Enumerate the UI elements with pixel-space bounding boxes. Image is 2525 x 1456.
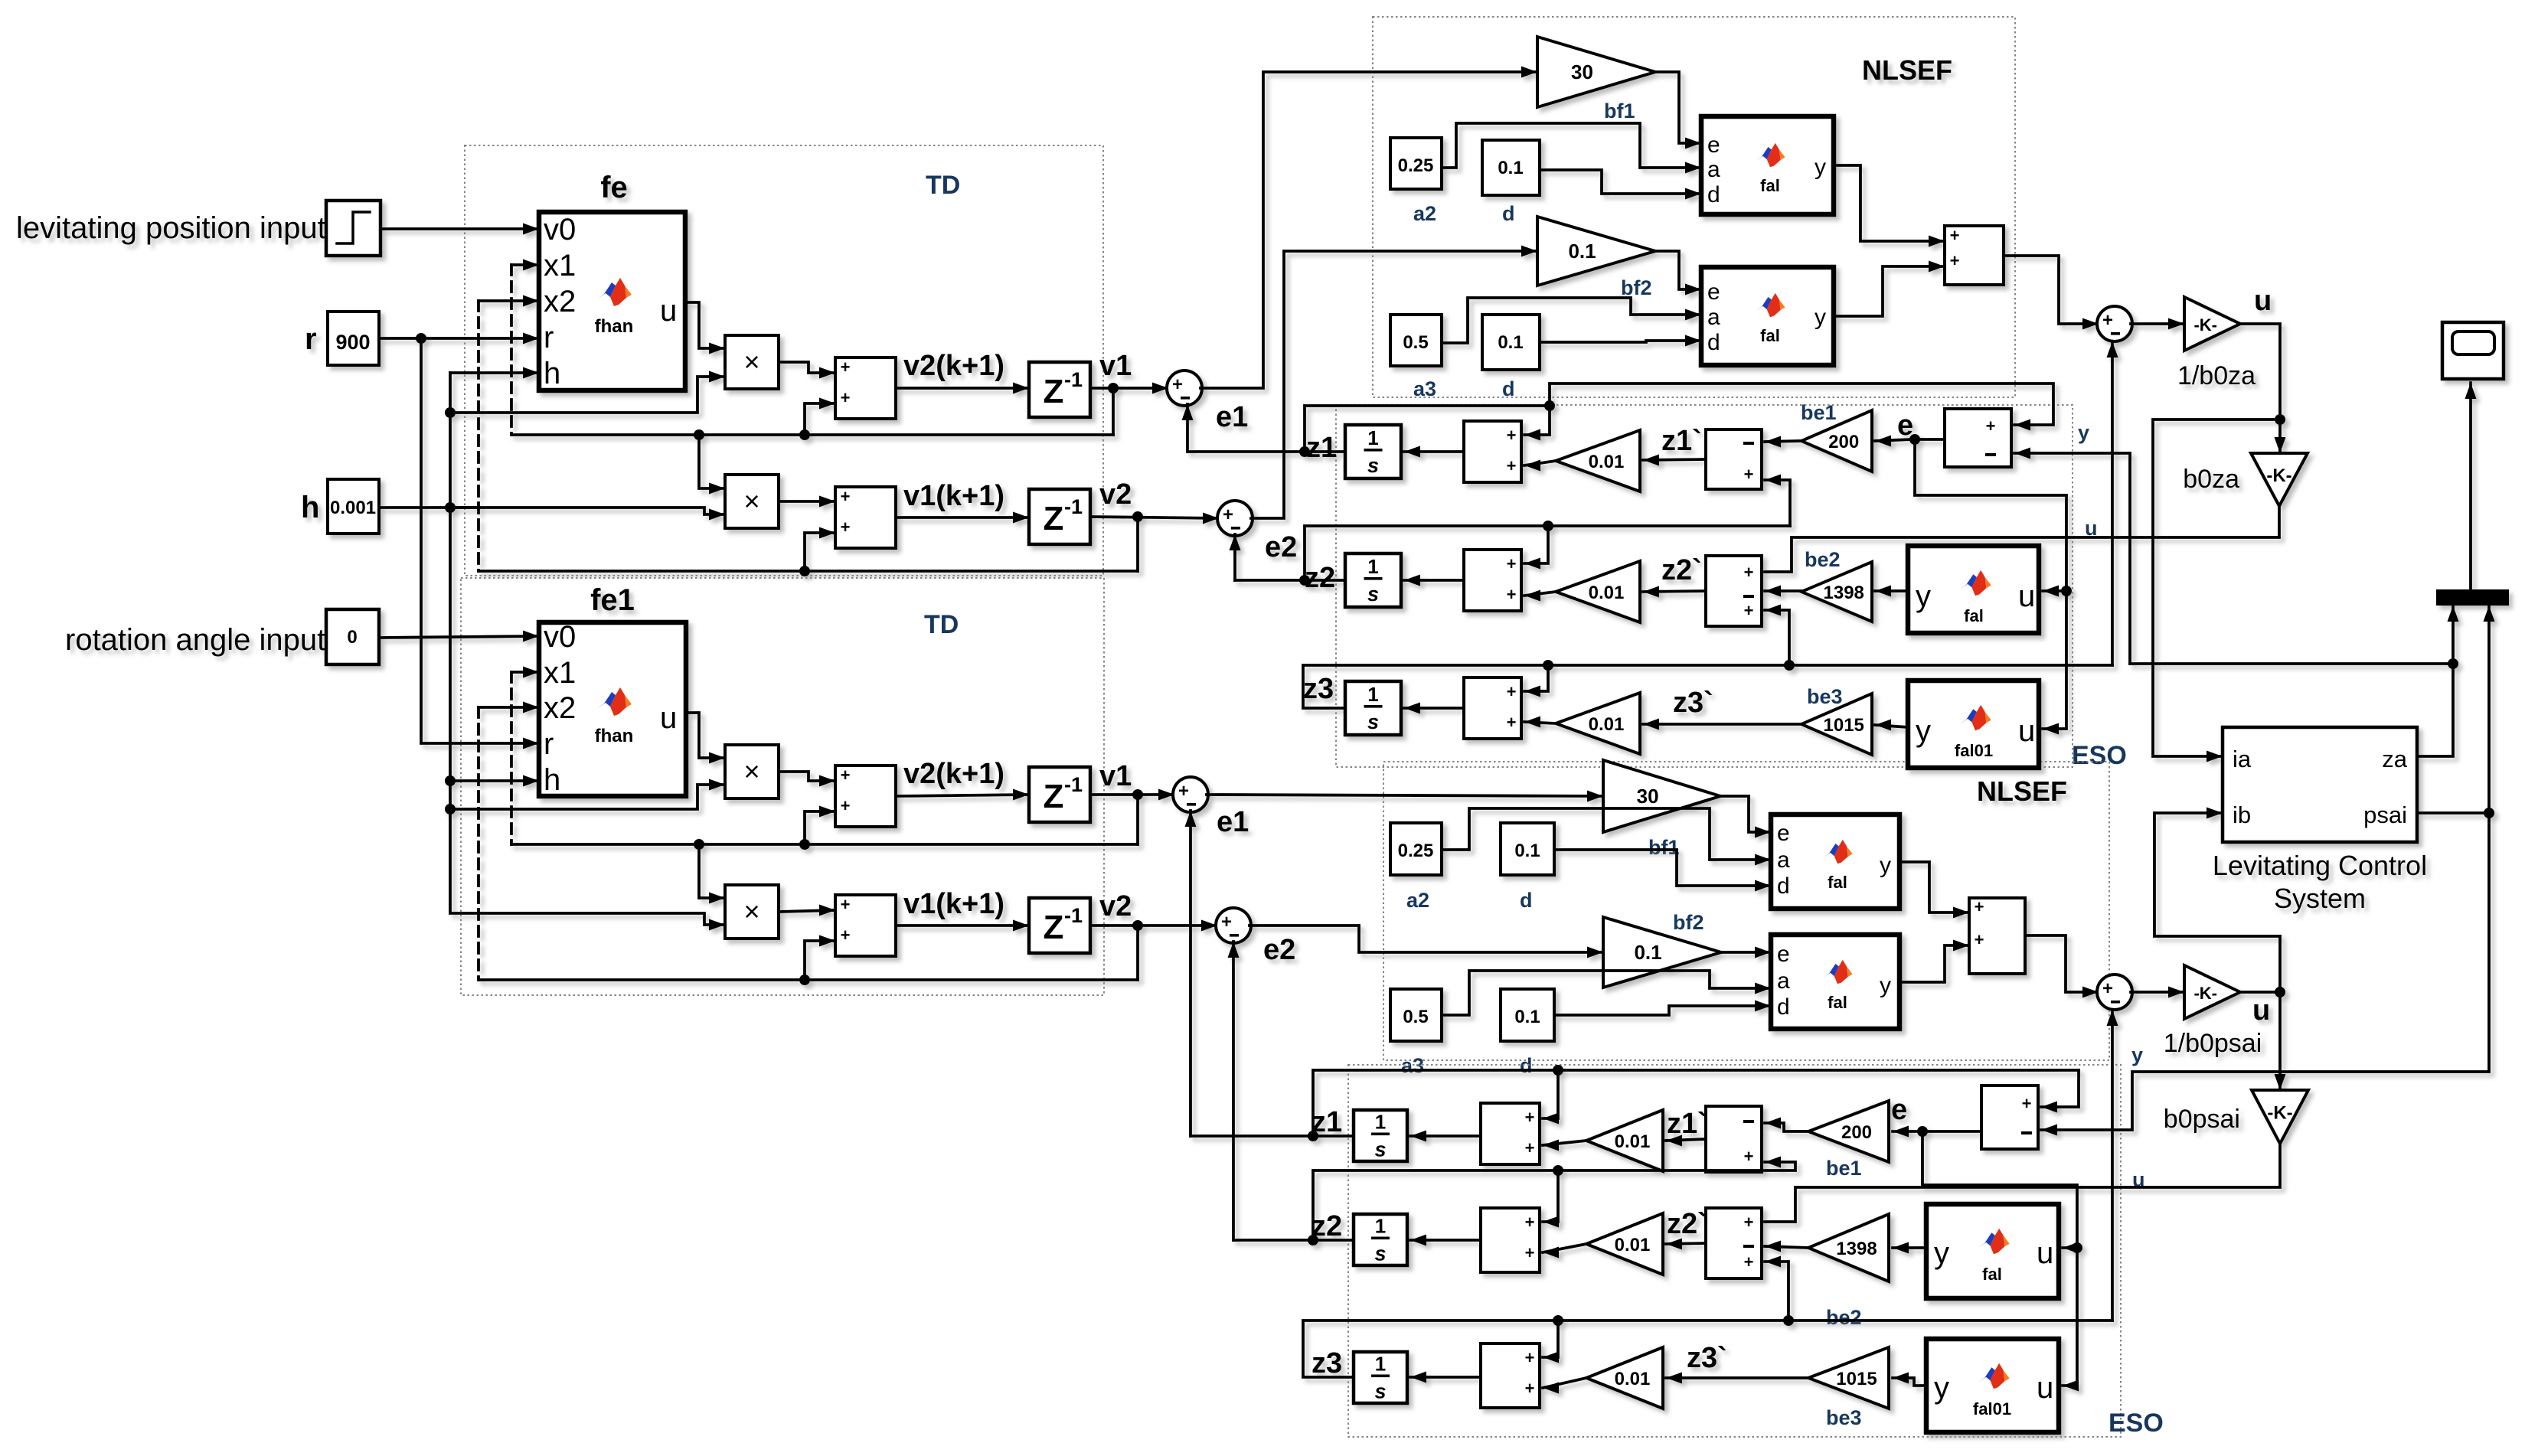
svg-text:-K-: -K- — [2266, 465, 2291, 486]
svg-text:levitating position input: levitating position input — [16, 211, 326, 245]
svg-text:200: 200 — [1828, 432, 1859, 452]
svg-text:r: r — [544, 321, 554, 354]
svg-text:0.1: 0.1 — [1634, 941, 1661, 964]
svg-text:v2(k+1): v2(k+1) — [903, 350, 1004, 382]
svg-text:u: u — [2018, 579, 2035, 613]
svg-text:+: + — [1223, 504, 1233, 525]
svg-text:z3`: z3` — [1687, 1342, 1727, 1374]
svg-text:u: u — [2037, 1371, 2053, 1405]
svg-text:Levitating Control: Levitating Control — [2213, 850, 2427, 881]
svg-text:fal: fal — [1760, 326, 1780, 345]
svg-text:e: e — [1707, 279, 1720, 305]
svg-text:+: + — [1525, 1243, 1535, 1262]
svg-text:u: u — [2254, 285, 2272, 317]
svg-text:r: r — [544, 727, 554, 761]
svg-text:+: + — [1525, 1348, 1535, 1367]
svg-text:0.5: 0.5 — [1403, 1007, 1428, 1027]
svg-text:Z: Z — [1044, 373, 1064, 410]
svg-text:e: e — [1707, 132, 1720, 158]
svg-text:30: 30 — [1637, 785, 1659, 808]
svg-text:200: 200 — [1841, 1122, 1872, 1143]
svg-text:a: a — [1777, 968, 1790, 994]
svg-text:u: u — [2252, 994, 2270, 1027]
svg-text:u: u — [660, 701, 677, 735]
svg-text:bf2: bf2 — [1673, 911, 1704, 934]
svg-text:1: 1 — [1375, 1111, 1386, 1134]
svg-text:1/b0psai: 1/b0psai — [2164, 1029, 2262, 1058]
svg-text:u: u — [660, 294, 677, 328]
svg-text:+: + — [1744, 1213, 1754, 1232]
svg-text:+: + — [841, 895, 851, 914]
svg-text:1015: 1015 — [1836, 1369, 1877, 1389]
svg-text:a: a — [1707, 305, 1720, 330]
svg-text:1398: 1398 — [1824, 583, 1864, 603]
svg-text:+: + — [1986, 416, 1996, 436]
svg-text:×: × — [743, 485, 759, 517]
svg-text:y: y — [1880, 973, 1891, 998]
svg-text:z3`: z3` — [1673, 687, 1713, 719]
svg-text:+: + — [1507, 713, 1517, 732]
svg-text:s: s — [1367, 710, 1379, 733]
svg-text:+: + — [841, 357, 851, 377]
svg-text:s: s — [1367, 583, 1379, 606]
svg-text:Z: Z — [1044, 500, 1064, 537]
svg-text:ia: ia — [2233, 746, 2252, 772]
svg-text:-1: -1 — [1064, 495, 1083, 518]
svg-text:a: a — [1777, 847, 1790, 873]
svg-text:v0: v0 — [544, 620, 576, 654]
svg-text:x1: x1 — [544, 249, 576, 282]
svg-text:z2`: z2` — [1661, 554, 1702, 586]
svg-text:x2: x2 — [544, 691, 576, 725]
svg-text:z1: z1 — [1306, 432, 1337, 464]
svg-text:1398: 1398 — [1836, 1239, 1877, 1259]
svg-text:z3: z3 — [1311, 1347, 1342, 1379]
svg-text:+: + — [1525, 1213, 1535, 1232]
svg-text:0.1: 0.1 — [1498, 332, 1523, 353]
svg-text:+: + — [1178, 781, 1189, 801]
svg-text:d: d — [1502, 202, 1515, 225]
svg-text:1/b0za: 1/b0za — [2177, 361, 2256, 390]
svg-text:d: d — [1502, 377, 1515, 400]
svg-text:fal: fal — [1964, 606, 1984, 625]
svg-text:h: h — [544, 357, 560, 390]
svg-text:psai: psai — [2363, 801, 2407, 828]
svg-text:+: + — [2102, 310, 2113, 331]
svg-text:0.25: 0.25 — [1398, 155, 1434, 176]
svg-text:z3: z3 — [1303, 673, 1334, 705]
svg-text:fal01: fal01 — [1955, 741, 1993, 760]
svg-text:+: + — [1507, 585, 1517, 604]
svg-text:s: s — [1367, 454, 1379, 477]
svg-text:1: 1 — [1367, 426, 1378, 449]
svg-text:u: u — [2037, 1236, 2053, 1270]
svg-text:0.01: 0.01 — [1615, 1369, 1651, 1389]
svg-text:+: + — [1950, 226, 1960, 245]
svg-text:za: za — [2382, 746, 2408, 772]
svg-text:y: y — [1880, 853, 1891, 878]
svg-text:x2: x2 — [544, 285, 576, 318]
svg-text:0.01: 0.01 — [1615, 1131, 1651, 1152]
svg-text:+: + — [1507, 554, 1517, 573]
svg-text:u: u — [2018, 714, 2035, 748]
svg-text:-K-: -K- — [2193, 984, 2217, 1003]
svg-text:be2: be2 — [1805, 548, 1841, 571]
svg-text:+: + — [1221, 912, 1232, 932]
svg-text:+: + — [1507, 426, 1517, 445]
svg-text:fe1: fe1 — [590, 583, 635, 617]
svg-text:d: d — [1520, 889, 1533, 912]
svg-text:0.01: 0.01 — [1589, 583, 1625, 603]
svg-text:30: 30 — [1571, 60, 1593, 83]
svg-text:d: d — [1777, 994, 1790, 1020]
svg-text:e: e — [1891, 1094, 1907, 1126]
svg-text:rotation angle input: rotation angle input — [65, 623, 325, 657]
svg-text:v2: v2 — [1099, 478, 1132, 511]
svg-text:v1: v1 — [1099, 760, 1132, 792]
svg-text:fal: fal — [1982, 1265, 2002, 1284]
svg-text:+: + — [1507, 456, 1517, 475]
svg-text:fe: fe — [600, 171, 628, 204]
svg-text:e1: e1 — [1216, 401, 1248, 433]
svg-text:+: + — [841, 926, 851, 945]
svg-text:v1(k+1): v1(k+1) — [903, 480, 1004, 512]
svg-text:e: e — [1777, 821, 1790, 846]
svg-text:TD: TD — [924, 610, 959, 639]
svg-text:b0psai: b0psai — [2164, 1105, 2240, 1134]
svg-text:1015: 1015 — [1824, 715, 1864, 736]
svg-text:x1: x1 — [544, 656, 576, 690]
svg-text:+: + — [1975, 930, 1984, 949]
svg-text:v2: v2 — [1099, 890, 1132, 922]
svg-text:×: × — [743, 896, 759, 927]
svg-text:fal01: fal01 — [1973, 1399, 2011, 1418]
svg-text:+: + — [2022, 1094, 2032, 1113]
svg-text:NLSEF: NLSEF — [1862, 54, 1952, 86]
svg-text:-1: -1 — [1064, 773, 1083, 796]
svg-text:fal: fal — [1828, 993, 1847, 1012]
svg-text:0: 0 — [347, 627, 357, 648]
svg-text:+: + — [1950, 251, 1960, 270]
svg-text:1: 1 — [1375, 1215, 1386, 1238]
svg-text:-1: -1 — [1064, 904, 1083, 927]
svg-text:y: y — [1815, 305, 1826, 330]
svg-text:y: y — [1815, 155, 1826, 180]
svg-text:fal: fal — [1760, 176, 1780, 195]
svg-text:h: h — [301, 491, 319, 524]
svg-text:y: y — [1934, 1371, 1949, 1405]
svg-text:z2`: z2` — [1667, 1208, 1707, 1240]
svg-text:-K-: -K- — [2193, 315, 2217, 335]
svg-text:bf2: bf2 — [1621, 276, 1652, 299]
svg-text:h: h — [544, 763, 560, 797]
svg-text:0.5: 0.5 — [1403, 332, 1428, 353]
svg-text:e: e — [1777, 942, 1790, 967]
svg-text:Z: Z — [1044, 778, 1064, 815]
svg-text:a2: a2 — [1413, 202, 1436, 225]
svg-text:+: + — [2102, 978, 2113, 999]
svg-text:+: + — [1744, 465, 1754, 484]
svg-text:+: + — [841, 766, 851, 785]
svg-text:+: + — [1525, 1108, 1535, 1127]
svg-text:×: × — [743, 756, 759, 787]
svg-text:0.01: 0.01 — [1589, 452, 1625, 472]
svg-text:y: y — [1934, 1236, 1949, 1270]
svg-text:be3: be3 — [1826, 1406, 1862, 1429]
svg-text:be2: be2 — [1826, 1306, 1862, 1329]
svg-text:ib: ib — [2233, 801, 2251, 828]
svg-text:1: 1 — [1367, 683, 1378, 706]
svg-text:b0za: b0za — [2183, 465, 2239, 494]
svg-text:+: + — [1744, 1147, 1754, 1166]
svg-text:s: s — [1374, 1138, 1386, 1161]
svg-text:d: d — [1777, 873, 1790, 899]
svg-text:bf1: bf1 — [1604, 100, 1635, 122]
svg-text:0.01: 0.01 — [1615, 1235, 1651, 1255]
svg-text:NLSEF: NLSEF — [1977, 775, 2067, 807]
svg-text:ESO: ESO — [2072, 741, 2127, 770]
svg-text:be1: be1 — [1801, 401, 1837, 424]
svg-text:v1: v1 — [1099, 350, 1132, 382]
svg-text:×: × — [743, 346, 759, 377]
svg-text:+: + — [1975, 897, 1984, 916]
svg-text:v0: v0 — [544, 213, 576, 246]
svg-text:y: y — [1916, 579, 1931, 613]
svg-text:d: d — [1707, 330, 1720, 355]
svg-text:v1(k+1): v1(k+1) — [903, 888, 1004, 920]
svg-text:TD: TD — [926, 171, 960, 200]
svg-text:z1`: z1` — [1661, 425, 1702, 457]
svg-text:0.1: 0.1 — [1514, 1007, 1540, 1027]
svg-text:s: s — [1374, 1380, 1386, 1403]
svg-text:d: d — [1520, 1054, 1533, 1077]
svg-text:+: + — [1744, 601, 1754, 620]
svg-text:+: + — [841, 796, 851, 815]
svg-text:+: + — [841, 487, 851, 506]
svg-text:System: System — [2274, 883, 2366, 914]
svg-text:0.1: 0.1 — [1514, 841, 1540, 861]
svg-text:-1: -1 — [1064, 368, 1083, 391]
svg-text:bf1: bf1 — [1648, 836, 1680, 859]
svg-text:-K-: -K- — [2267, 1102, 2292, 1123]
svg-text:+: + — [841, 388, 851, 407]
svg-text:ESO: ESO — [2109, 1409, 2164, 1438]
svg-text:v2(k+1): v2(k+1) — [903, 758, 1004, 790]
svg-text:fhan: fhan — [595, 726, 634, 746]
svg-text:+: + — [1744, 563, 1754, 582]
svg-text:+: + — [1507, 682, 1517, 701]
svg-text:y: y — [1916, 714, 1931, 748]
svg-text:0.25: 0.25 — [1398, 841, 1434, 861]
svg-text:0.1: 0.1 — [1568, 240, 1596, 263]
svg-text:fhan: fhan — [595, 316, 634, 337]
svg-text:e2: e2 — [1265, 531, 1297, 563]
svg-text:y: y — [2078, 421, 2089, 444]
svg-text:r: r — [305, 322, 317, 356]
svg-text:a3: a3 — [1413, 377, 1436, 400]
svg-text:0.1: 0.1 — [1498, 158, 1523, 178]
svg-text:1: 1 — [1367, 555, 1378, 578]
svg-text:e1: e1 — [1217, 806, 1249, 838]
svg-text:+: + — [1744, 1252, 1754, 1272]
svg-text:900: 900 — [335, 331, 370, 354]
svg-text:d: d — [1707, 182, 1720, 207]
svg-text:a: a — [1707, 157, 1720, 182]
svg-text:+: + — [1525, 1138, 1535, 1157]
svg-text:Z: Z — [1044, 909, 1064, 946]
svg-text:0.01: 0.01 — [1589, 714, 1625, 735]
svg-text:+: + — [1172, 374, 1183, 395]
svg-text:a2: a2 — [1406, 889, 1429, 912]
svg-text:+: + — [841, 517, 851, 537]
svg-text:0.001: 0.001 — [330, 498, 376, 518]
svg-text:+: + — [1525, 1379, 1535, 1398]
svg-text:e2: e2 — [1263, 934, 1295, 966]
svg-text:y: y — [2131, 1043, 2143, 1066]
svg-text:z1`: z1` — [1667, 1108, 1707, 1140]
svg-text:be3: be3 — [1807, 685, 1843, 708]
svg-text:be1: be1 — [1826, 1157, 1862, 1180]
svg-text:s: s — [1374, 1242, 1386, 1265]
svg-text:fal: fal — [1828, 873, 1847, 892]
svg-text:1: 1 — [1375, 1353, 1386, 1376]
